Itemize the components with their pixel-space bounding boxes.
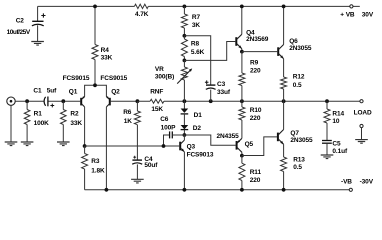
resistor R4 <box>92 45 98 60</box>
svg-text:100P: 100P <box>161 124 177 131</box>
svg-text:50uf: 50uf <box>144 162 158 169</box>
svg-text:R11: R11 <box>250 169 262 176</box>
svg-text:4.7K: 4.7K <box>135 11 149 18</box>
node R7/R8 <box>183 34 187 38</box>
node Q3 emitter/-VB rail <box>183 188 187 192</box>
wire R4 column <box>94 6 96 85</box>
ground (C5) <box>321 155 334 159</box>
wire Q2 collector to -VB rail <box>105 107 107 190</box>
ground (R2) <box>57 142 70 146</box>
svg-text:2N3055: 2N3055 <box>290 137 313 144</box>
wire input row <box>15 100 80 102</box>
svg-text:R13: R13 <box>293 157 305 164</box>
capacitor C1 <box>44 97 45 106</box>
capacitor C3 <box>206 84 215 86</box>
svg-text:C6: C6 <box>160 116 169 123</box>
node R7/top rail <box>183 5 187 9</box>
svg-text:300(B): 300(B) <box>155 73 174 80</box>
capacitor C5 <box>322 140 332 142</box>
capacitor C6 <box>164 135 170 146</box>
node input/R1 <box>25 99 29 103</box>
wire VAS node line <box>85 145 180 147</box>
node R11/-VB rail <box>240 188 244 192</box>
diode D1 <box>183 101 185 108</box>
transistor Q1 <box>80 98 82 106</box>
svg-text:-VB: -VB <box>341 178 352 185</box>
node Q1 collector/R3/Q3 base <box>83 144 87 148</box>
svg-text:R12: R12 <box>293 74 305 81</box>
wire Q5C to Q7 base <box>242 137 277 156</box>
resistor R14 <box>326 101 328 140</box>
svg-text:1K: 1K <box>124 118 133 125</box>
svg-text:R2: R2 <box>70 110 79 117</box>
node R4/top rail <box>93 5 97 9</box>
resistor R11 <box>241 156 243 190</box>
node Q6 collector/top rail <box>282 5 286 9</box>
resistor 4.7K <box>134 4 148 8</box>
transistor Q7 <box>277 133 279 142</box>
svg-text:5.6K: 5.6K <box>191 49 205 56</box>
ground (C4) <box>131 179 144 183</box>
svg-text:-30V: -30V <box>360 178 374 185</box>
ground (input) <box>5 142 18 146</box>
svg-text:2N4355: 2N4355 <box>217 133 240 140</box>
node Q5 collector/R11/Q7 base link <box>240 154 244 158</box>
input terminal <box>7 97 15 105</box>
capacitor C2 <box>37 6 39 41</box>
svg-text:220: 220 <box>250 177 261 184</box>
svg-text:R10: R10 <box>250 107 262 114</box>
svg-text:Q7: Q7 <box>290 130 299 137</box>
svg-text:C5: C5 <box>332 141 341 148</box>
svg-text:0.5: 0.5 <box>293 164 302 171</box>
transistor Q2 <box>109 98 111 106</box>
svg-text:220: 220 <box>250 115 261 122</box>
resistor R10 <box>241 101 243 138</box>
resistor R13 <box>283 144 285 190</box>
wire Q4 emitter / node <box>241 49 243 52</box>
node R9/R10/output line <box>240 99 244 103</box>
svg-text:3K: 3K <box>192 22 201 29</box>
svg-text:R9: R9 <box>250 59 259 66</box>
svg-text:FCS9015: FCS9015 <box>100 75 127 82</box>
svg-text:220: 220 <box>250 67 261 74</box>
node C6 tap/Q3 base line <box>162 144 166 148</box>
wire Q5 collector node <box>241 152 243 155</box>
wire Q7 collector <box>283 101 285 129</box>
node R14/output line <box>325 99 329 103</box>
svg-text:Q2: Q2 <box>111 89 120 96</box>
resistor R12 <box>283 59 285 101</box>
svg-text:R8: R8 <box>191 40 200 47</box>
terminal +VB <box>350 5 353 8</box>
resistor R8 <box>183 36 185 61</box>
svg-text:2N3569: 2N3569 <box>246 36 269 43</box>
svg-text:R1: R1 <box>34 110 43 117</box>
svg-text:R4: R4 <box>101 47 110 54</box>
svg-text:100K: 100K <box>34 120 50 127</box>
wire -VB bottom rail <box>85 189 350 191</box>
svg-text:VR: VR <box>155 66 164 73</box>
svg-text:+ VB: + VB <box>340 11 355 18</box>
resistor R7 <box>183 6 185 35</box>
terminal output <box>360 100 363 103</box>
svg-text:FCS9015: FCS9015 <box>63 75 90 82</box>
node Q4 emitter/R9/Q6 base <box>240 50 244 54</box>
wire diff-pair emitter node <box>85 85 107 96</box>
capacitor C4 <box>132 159 142 161</box>
wire Q3 collector <box>183 135 185 140</box>
node diff pair emitters/R4 <box>93 83 97 87</box>
svg-text:2N3055: 2N3055 <box>289 45 312 52</box>
svg-text:30V: 30V <box>362 12 374 19</box>
svg-text:RNF: RNF <box>150 88 163 95</box>
svg-text:FCS9013: FCS9013 <box>187 151 214 158</box>
node VR/RNF/D1 <box>183 99 187 103</box>
svg-text:Q5: Q5 <box>245 141 254 148</box>
wire Q2 base to feedback node <box>111 100 138 102</box>
node R13/-VB rail <box>282 188 286 192</box>
svg-text:Q1: Q1 <box>69 89 78 96</box>
wire Q3 emitter <box>183 152 185 190</box>
wire Q4E to Q6B <box>242 51 277 53</box>
node Q2 collector/-VB rail <box>105 188 109 192</box>
svg-text:D2: D2 <box>193 125 202 132</box>
wire Q6 collector <box>283 6 285 44</box>
terminal LOAD return <box>360 124 363 127</box>
svg-text:C1: C1 <box>33 88 42 95</box>
svg-text:1.8K: 1.8K <box>91 167 105 174</box>
node Q3 collector/D2/C6 <box>183 133 187 137</box>
svg-text:LOAD: LOAD <box>354 110 372 117</box>
terminal -VB <box>349 188 352 191</box>
wire Q4 collector <box>241 6 243 34</box>
node R8/VR/Q4-base <box>183 59 187 63</box>
resistor RNF <box>137 100 182 102</box>
node R12/Q7 collector/output line <box>282 99 286 103</box>
resistor R9 <box>241 52 243 102</box>
svg-text:33K: 33K <box>70 120 82 127</box>
svg-text:R6: R6 <box>123 109 132 116</box>
svg-text:R7: R7 <box>192 14 201 21</box>
resistor R3 <box>84 146 86 190</box>
node feedback / Q2 base <box>136 99 140 103</box>
wire bootstrap C3 feed <box>184 36 210 85</box>
svg-text:15K: 15K <box>151 106 163 113</box>
ground (C2) <box>31 42 44 46</box>
svg-text:0.5: 0.5 <box>293 82 302 89</box>
transistor Q4 <box>235 37 237 46</box>
potentiometer VR <box>183 60 185 101</box>
svg-text:10uf/25V: 10uf/25V <box>7 29 31 36</box>
node C3/output line <box>209 99 213 103</box>
svg-text:10: 10 <box>332 118 340 125</box>
svg-text:C3: C3 <box>217 81 226 88</box>
svg-text:0.1uf: 0.1uf <box>332 148 348 155</box>
transistor Q6 <box>277 47 279 56</box>
wire Q4 base feed <box>184 42 235 61</box>
wire Q1 collector <box>84 107 86 146</box>
node Q4 collector/top rail <box>240 5 244 9</box>
svg-text:5uf: 5uf <box>47 88 57 95</box>
main output row wire <box>183 100 360 102</box>
wire input terminal ground stub <box>10 105 12 141</box>
svg-text:33uf: 33uf <box>217 89 231 96</box>
node C1/R2/Q1 base <box>61 99 65 103</box>
wire VAS to Q5 base <box>184 135 235 145</box>
svg-text:Q3: Q3 <box>187 144 196 151</box>
svg-text:33K: 33K <box>101 55 113 62</box>
wire top +VB rail <box>38 5 360 7</box>
svg-text:D1: D1 <box>194 112 203 119</box>
ground (R1) <box>21 142 34 146</box>
svg-text:C2: C2 <box>16 18 25 25</box>
svg-text:R3: R3 <box>91 158 100 165</box>
svg-text:R14: R14 <box>332 110 344 117</box>
resistor R6 <box>136 101 138 160</box>
diode D2 <box>183 114 185 125</box>
transistor Q3 <box>179 142 181 151</box>
transistor Q5 <box>236 141 238 150</box>
